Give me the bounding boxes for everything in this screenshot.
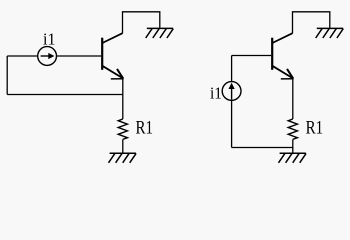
wire	[7, 55, 38, 57]
svg-text:R1: R1	[306, 119, 324, 139]
wire	[122, 78, 124, 119]
wire	[122, 139, 124, 153]
wire	[123, 12, 160, 34]
wire	[293, 12, 330, 34]
resistor R1	[118, 119, 127, 139]
svg-text:i1: i1	[43, 29, 56, 48]
ground	[109, 153, 137, 163]
current source i1	[222, 82, 241, 101]
svg-text:R1: R1	[136, 119, 154, 139]
wire	[57, 55, 102, 57]
resistor R1	[288, 119, 297, 139]
svg-text:i1: i1	[210, 83, 222, 102]
ground	[279, 153, 307, 163]
ground	[146, 28, 174, 38]
wire	[6, 56, 8, 95]
wire	[292, 139, 294, 153]
wire	[292, 78, 294, 119]
wire	[232, 147, 293, 149]
ground	[316, 28, 344, 38]
transistor Q2	[272, 33, 293, 79]
wire	[7, 94, 123, 96]
wire	[231, 100, 233, 147]
current source i1	[38, 47, 57, 66]
transistor Q1	[102, 33, 123, 79]
wire	[231, 56, 233, 82]
wire	[232, 55, 272, 57]
